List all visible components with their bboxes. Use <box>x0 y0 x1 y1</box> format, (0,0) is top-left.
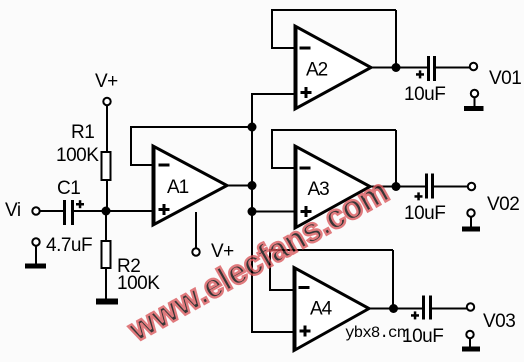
svg-text:C1: C1 <box>57 178 80 199</box>
label 100K R1 <box>56 145 99 166</box>
svg-text:V02: V02 <box>487 194 519 215</box>
wire bus to A4 plus input <box>251 331 294 333</box>
wire node A to R2 <box>105 211 107 241</box>
wire A1 feedback horizontal <box>130 126 252 128</box>
wire A2 output <box>371 67 427 69</box>
wire cap to V03 terminal <box>432 308 467 310</box>
wire C1 to A1 plus input <box>74 210 153 212</box>
wire Vi to C1 <box>40 210 63 212</box>
wire bus to A2 plus input <box>251 93 295 95</box>
svg-text:10uF: 10uF <box>404 84 445 105</box>
op-amp A2 <box>294 26 371 109</box>
label A2 <box>306 60 328 81</box>
label A4 <box>310 299 333 320</box>
svg-text:100K: 100K <box>56 145 99 166</box>
ground at V02 <box>462 209 480 231</box>
wire A1 V+ stem <box>195 212 197 249</box>
label 10uF A3 <box>404 203 445 224</box>
svg-text:100K: 100K <box>117 273 160 294</box>
ground at Vi input <box>25 238 46 268</box>
wire A1 output <box>227 185 252 187</box>
svg-text:V03: V03 <box>483 311 515 332</box>
capacitor 10uF A2 <box>416 56 436 81</box>
wire A2 feedback left vertical <box>271 10 273 49</box>
wire output bus <box>251 94 253 332</box>
svg-text:4.7uF: 4.7uF <box>46 235 92 256</box>
wire A4 feedback right vertical <box>392 250 394 309</box>
wire A1 minus input <box>131 164 153 166</box>
svg-text:10uF: 10uF <box>402 326 443 347</box>
label 10uF A4 <box>402 326 443 347</box>
label R2 <box>117 256 140 277</box>
resistor R1 <box>102 152 111 180</box>
node A junction <box>102 207 111 216</box>
svg-text:R1: R1 <box>71 122 94 143</box>
svg-text:V01: V01 <box>489 68 521 89</box>
terminal V01 <box>470 63 477 70</box>
terminal V+ top <box>103 98 110 105</box>
label A3 <box>308 179 330 200</box>
wire A3 minus input <box>272 167 295 169</box>
label 4.7uF <box>46 235 92 256</box>
label C1 <box>57 178 80 199</box>
wire A2 feedback right vertical <box>395 10 397 68</box>
capacitor C1 <box>63 200 84 225</box>
capacitor 10uF A4 <box>411 296 432 320</box>
ground below R2 <box>96 299 118 305</box>
watermark www.elecfans.com <box>121 172 395 349</box>
wire A4 feedback left vertical <box>269 250 271 291</box>
terminal V+ A1 <box>192 248 199 255</box>
junction A4 output <box>389 304 398 313</box>
ground at V01 <box>464 90 484 111</box>
junction A2 output <box>392 63 401 72</box>
wire A3 output <box>370 186 425 188</box>
junction bus A1 output <box>248 181 257 190</box>
junction bus feedback A1 <box>248 123 257 132</box>
wire A2 minus input <box>272 47 295 49</box>
terminal Vi <box>32 207 39 214</box>
svg-text:V+: V+ <box>95 71 118 92</box>
svg-text:10uF: 10uF <box>404 203 445 224</box>
label V03 <box>483 311 515 332</box>
wire A4 minus input <box>270 289 294 291</box>
terminal V03 <box>467 303 474 310</box>
junction A3 output <box>392 182 401 191</box>
wire A4 output <box>369 308 422 310</box>
wire A3 feedback left vertical <box>271 130 273 169</box>
label R1 <box>71 122 94 143</box>
wire A4 feedback top <box>269 249 393 251</box>
wire bus to A3 plus input <box>252 211 295 213</box>
svg-text:Vi: Vi <box>5 200 21 221</box>
resistor R2 <box>102 241 111 268</box>
wire A3 feedback right vertical <box>395 130 397 187</box>
svg-text:A4: A4 <box>310 299 333 320</box>
wire R2 to ground <box>105 268 107 301</box>
wire A2 feedback top <box>271 9 396 11</box>
label 10uF A2 <box>404 84 445 105</box>
wire V+ to R1 <box>106 106 108 153</box>
ground at V03 <box>462 331 480 352</box>
wire A3 feedback top <box>271 129 396 131</box>
node Vi label <box>5 200 21 221</box>
junction bus A3 input <box>248 207 257 216</box>
label V02 <box>487 194 519 215</box>
label V+ top <box>95 71 118 92</box>
svg-text:ybx8.cn: ybx8.cn <box>345 324 406 342</box>
label ybx8.cn <box>345 324 406 342</box>
op-amp A3 <box>294 146 370 228</box>
op-amp A1 <box>152 146 227 225</box>
svg-text:A2: A2 <box>306 60 328 81</box>
op-amp A4 <box>293 268 369 351</box>
wire cap to V02 terminal <box>434 186 468 188</box>
capacitor 10uF A3 <box>415 174 435 201</box>
label A1 <box>167 177 189 198</box>
svg-text:A1: A1 <box>167 177 189 198</box>
label 100K R2 <box>117 273 160 294</box>
svg-text:A3: A3 <box>308 179 330 200</box>
label V01 <box>489 68 521 89</box>
label V+ A1 <box>211 241 234 262</box>
wire cap to V01 terminal <box>436 67 470 69</box>
wire A1 feedback vertical <box>130 127 132 166</box>
wire R1 to node A <box>106 180 108 211</box>
terminal V02 <box>468 183 475 190</box>
